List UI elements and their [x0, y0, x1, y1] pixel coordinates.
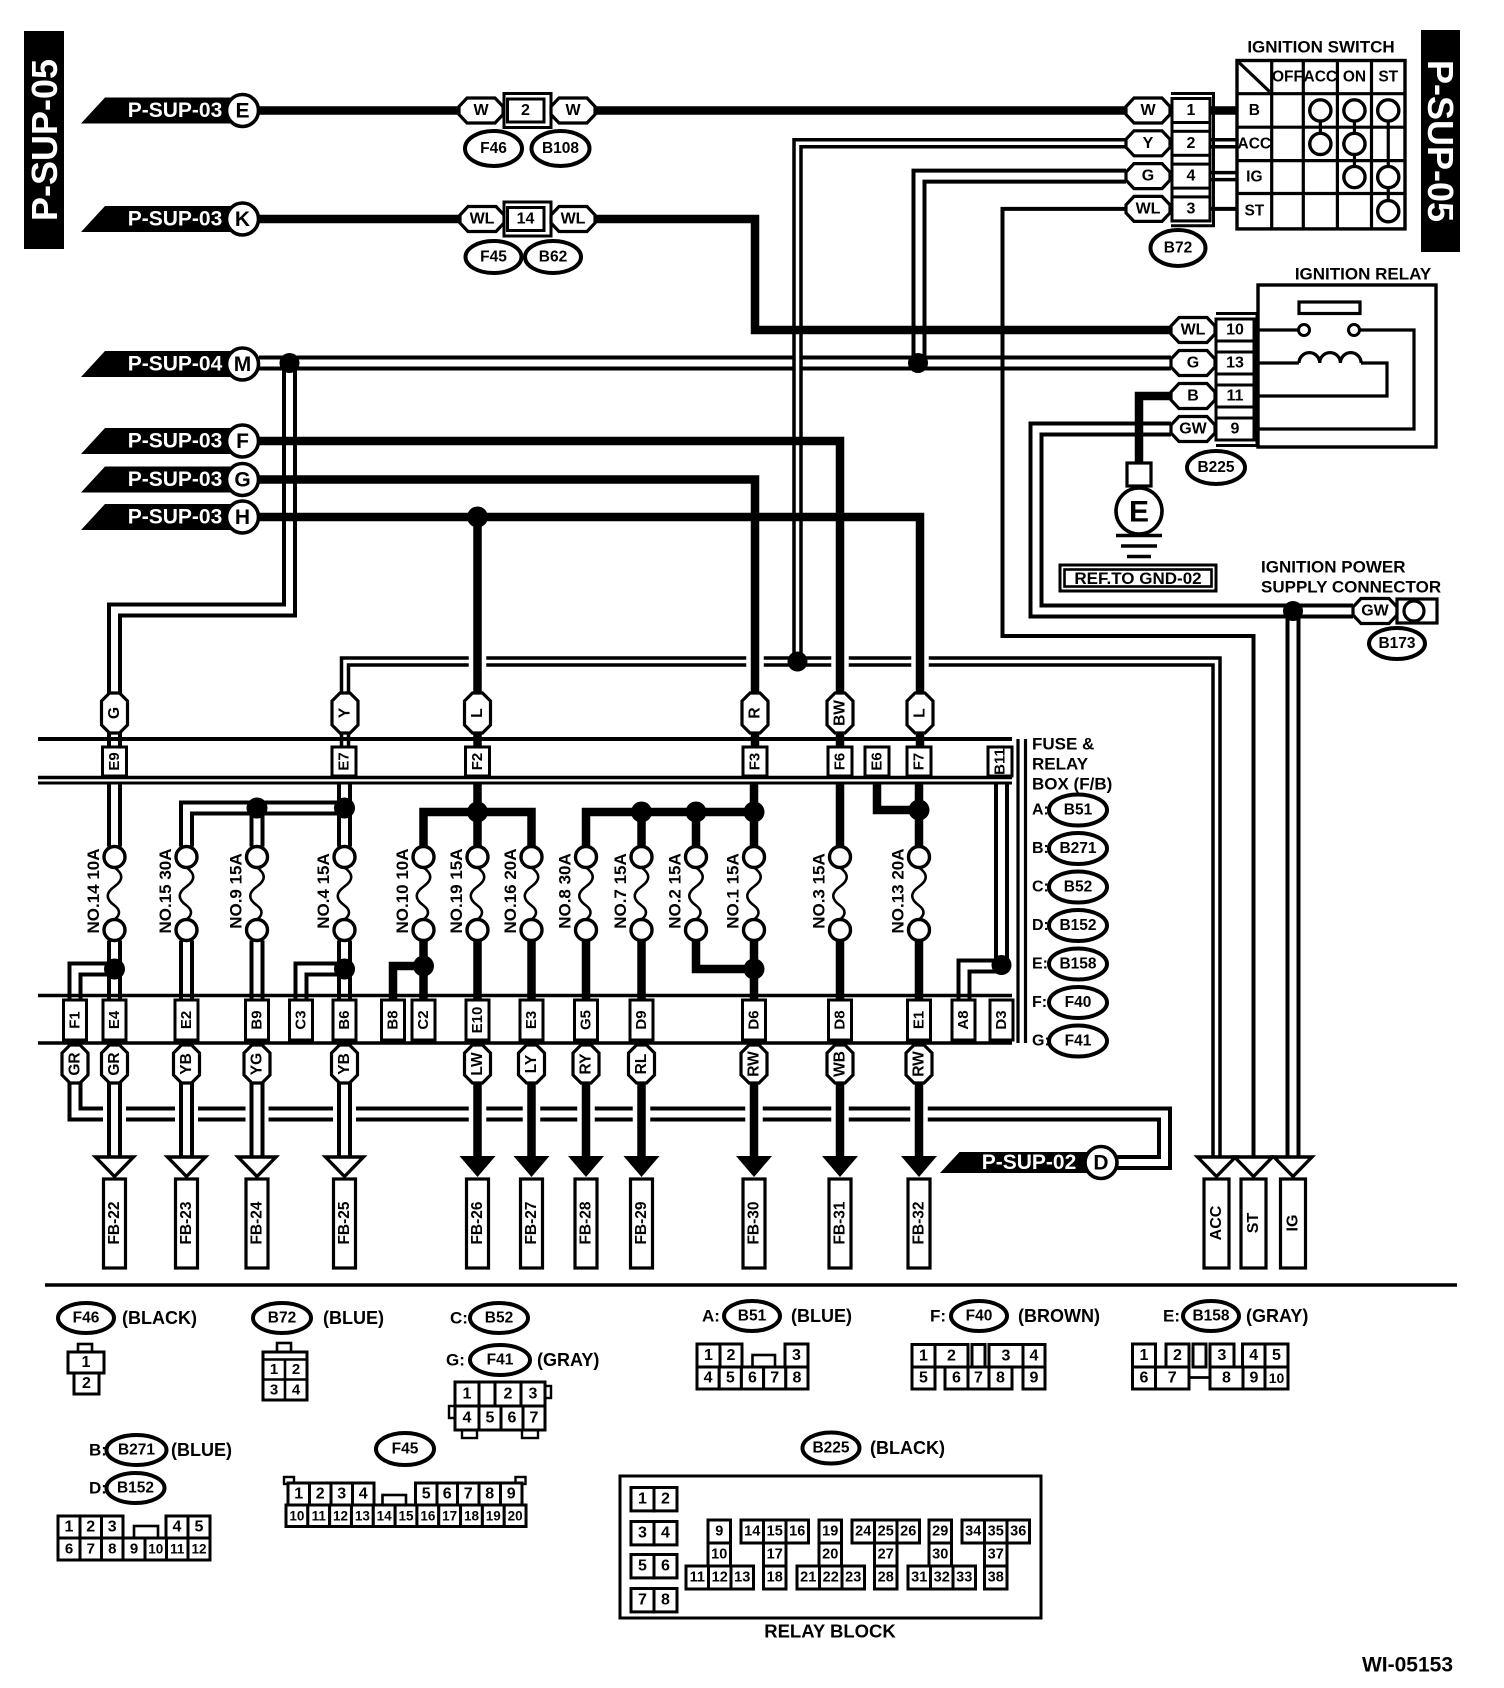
svg-text:WB: WB: [832, 1051, 849, 1077]
svg-text:10: 10: [148, 1542, 163, 1557]
svg-text:9: 9: [1030, 1370, 1039, 1387]
svg-text:B108: B108: [542, 140, 579, 157]
junction NO.7 branch: [631, 802, 652, 823]
svg-text:IG: IG: [1285, 1215, 1302, 1232]
svg-text:12: 12: [712, 1570, 728, 1586]
wire tag BW above fuse box: [827, 693, 853, 733]
svg-text:ST: ST: [1378, 69, 1398, 86]
svg-text:GW: GW: [1179, 421, 1207, 438]
svg-text:E2: E2: [178, 1011, 195, 1029]
svg-text:FB-31: FB-31: [832, 1201, 849, 1244]
svg-text:4: 4: [704, 1370, 713, 1387]
inline connector 14 F45-B62: [504, 202, 551, 236]
svg-text:6: 6: [1140, 1370, 1149, 1387]
inline connector 2 F46-B108: [504, 94, 551, 128]
svg-text:(BLACK): (BLACK): [870, 1438, 945, 1458]
connector B72 pinout: [263, 1343, 307, 1400]
svg-text:13: 13: [1226, 355, 1244, 372]
svg-text:3: 3: [638, 1525, 647, 1542]
fuse NO.8 30A: [556, 847, 597, 941]
svg-text:1: 1: [270, 1361, 278, 1378]
svg-text:G: G: [234, 469, 250, 492]
terminal F3: [743, 747, 767, 776]
svg-text:WL: WL: [561, 211, 586, 228]
wire tag L above fuse box: [465, 693, 491, 733]
svg-text:F:: F:: [1032, 994, 1047, 1011]
wire GW relay pin9: [1036, 429, 1353, 611]
svg-text:19: 19: [822, 1524, 838, 1540]
svg-text:36: 36: [1010, 1524, 1026, 1540]
svg-text:NO.9 15A: NO.9 15A: [227, 853, 246, 929]
connector B158 pinout: [1133, 1344, 1289, 1389]
junction E7 branch: [334, 798, 355, 819]
wire tag W left: [459, 98, 503, 123]
svg-text:F45: F45: [480, 249, 507, 266]
svg-text:D:: D:: [89, 1479, 107, 1498]
svg-text:8: 8: [108, 1541, 116, 1558]
flag P-SUP-02 D: [940, 1147, 1117, 1179]
wire YB B6 stem to FB-25: [337, 1043, 352, 1157]
svg-text:IGNITION POWER: IGNITION POWER: [1261, 558, 1406, 577]
terminal E9: [103, 747, 127, 776]
junction Y ACC wire: [788, 652, 808, 672]
svg-text:D:: D:: [1032, 917, 1049, 934]
svg-text:2: 2: [316, 1486, 325, 1503]
svg-text:NO.3 15A: NO.3 15A: [810, 853, 829, 929]
svg-text:IGNITION SWITCH: IGNITION SWITCH: [1247, 38, 1394, 57]
terminal A8: [952, 1000, 975, 1040]
connector F46 callout: [465, 131, 522, 166]
wire L from flag H to F7: [259, 517, 920, 747]
wire WL to ignition relay pin10: [595, 219, 1171, 330]
svg-text:3: 3: [792, 1347, 801, 1364]
svg-text:34: 34: [965, 1524, 981, 1540]
svg-text:C:: C:: [450, 1309, 468, 1328]
svg-text:20: 20: [508, 1508, 523, 1523]
svg-text:W: W: [1140, 102, 1156, 119]
svg-text:24: 24: [855, 1524, 871, 1540]
wire fuse NO.9 to B9: [250, 941, 265, 1001]
svg-text:D: D: [1093, 1152, 1108, 1175]
wire LY E3 stem to FB-27: [527, 1043, 536, 1157]
wire LW E10 stem to FB-26: [473, 1043, 482, 1157]
svg-text:4: 4: [1249, 1347, 1258, 1364]
pin 11 tag B ignition relay: [1171, 384, 1254, 409]
svg-text:2: 2: [661, 1491, 670, 1508]
svg-text:NO.16 20A: NO.16 20A: [501, 848, 520, 933]
wire branch fuse NO.10 NO.16: [424, 812, 532, 847]
wire tag GW power supply: [1353, 599, 1397, 624]
svg-text:13: 13: [734, 1570, 750, 1586]
fuse NO.1 15A: [724, 847, 765, 941]
wire F3 to fuse NO.1: [750, 783, 759, 847]
svg-text:4: 4: [173, 1519, 182, 1536]
svg-text:B158: B158: [1059, 956, 1096, 973]
svg-text:18: 18: [464, 1508, 480, 1523]
svg-text:33: 33: [956, 1570, 972, 1586]
svg-text:17: 17: [442, 1508, 457, 1523]
svg-text:RW: RW: [746, 1051, 763, 1077]
svg-text:5: 5: [195, 1519, 204, 1536]
wire M P-SUP-04 main G: [259, 356, 1171, 371]
svg-text:8: 8: [792, 1370, 801, 1387]
svg-text:P-SUP-03: P-SUP-03: [128, 208, 223, 231]
svg-text:3: 3: [529, 1386, 538, 1403]
svg-text:2: 2: [727, 1347, 736, 1364]
ignition switch contact circles: [1310, 100, 1399, 222]
svg-text:7: 7: [530, 1410, 539, 1427]
svg-text:5: 5: [486, 1410, 495, 1427]
wire ACC switch stub: [1210, 138, 1237, 149]
wire ST switch stub: [1210, 207, 1237, 211]
connector B108 callout: [532, 131, 590, 166]
svg-text:(GRAY): (GRAY): [1246, 1306, 1308, 1326]
svg-text:H: H: [235, 506, 250, 529]
svg-text:P-SUP-03: P-SUP-03: [128, 506, 223, 529]
svg-text:ACC: ACC: [1208, 1205, 1225, 1240]
fuse box top strip: [38, 739, 1012, 783]
svg-text:4: 4: [292, 1382, 301, 1399]
svg-text:(BROWN): (BROWN): [1018, 1306, 1100, 1326]
wire GR F1 to P-SUP-02 D: [75, 1083, 1165, 1163]
svg-text:25: 25: [878, 1524, 894, 1540]
wire tag WL left: [460, 207, 504, 232]
wire F6 to fuse NO.3: [836, 783, 845, 847]
svg-text:10: 10: [1226, 322, 1244, 339]
arrow to FB-26: [460, 1156, 496, 1268]
svg-text:E:: E:: [1163, 1307, 1180, 1326]
connector G F41 label: [446, 1345, 599, 1375]
junction NO.10 bottom: [413, 956, 434, 977]
junction G wire on M line: [908, 353, 928, 373]
terminal F6: [828, 747, 852, 776]
arrow to ST: [1235, 1157, 1273, 1268]
svg-text:14: 14: [517, 211, 535, 228]
wire tag LW below fuse box: [465, 1045, 491, 1083]
svg-text:BOX (F/B): BOX (F/B): [1032, 775, 1112, 794]
svg-text:F40: F40: [1065, 994, 1092, 1011]
svg-text:YB: YB: [336, 1053, 353, 1075]
junction GW IG wire: [1283, 601, 1303, 621]
svg-text:23: 23: [845, 1570, 861, 1586]
wire tag G above E9: [102, 693, 128, 733]
wire B11 branch to A8: [964, 966, 1002, 1000]
svg-text:B51: B51: [1064, 802, 1093, 819]
svg-text:YG: YG: [249, 1053, 266, 1075]
svg-text:P-SUP-05: P-SUP-05: [24, 59, 65, 221]
svg-text:3: 3: [1187, 200, 1196, 217]
terminal E3: [520, 1000, 543, 1040]
power supply connector symbol: [1397, 599, 1437, 623]
svg-text:21: 21: [800, 1570, 816, 1586]
wire fuse NO.2 drop: [692, 812, 701, 847]
terminal G5: [575, 1000, 598, 1040]
svg-text:B271: B271: [118, 1442, 155, 1459]
svg-text:B51: B51: [738, 1308, 767, 1325]
svg-text:2: 2: [1173, 1347, 1182, 1364]
svg-text:5: 5: [1272, 1347, 1281, 1364]
wire E7 to fuse NO.4: [337, 783, 352, 847]
svg-text:5: 5: [726, 1370, 735, 1387]
svg-text:LY: LY: [523, 1054, 540, 1073]
svg-text:37: 37: [988, 1547, 1004, 1563]
svg-text:D9: D9: [633, 1010, 650, 1029]
connector B225 callout: [1187, 451, 1245, 484]
svg-text:NO.13 20A: NO.13 20A: [889, 848, 908, 933]
svg-text:F40: F40: [966, 1308, 993, 1325]
wire fuse NO.7 to D9: [637, 941, 646, 1001]
svg-text:B72: B72: [268, 1310, 296, 1327]
relay coil: [1258, 353, 1387, 396]
svg-text:G: G: [1142, 168, 1154, 185]
wire branch to C3: [301, 969, 345, 1000]
junction NO.2 branch: [686, 802, 707, 823]
ground E circle: [1116, 488, 1162, 534]
svg-text:P-SUP-03: P-SUP-03: [128, 430, 223, 453]
svg-text:M: M: [234, 353, 252, 376]
terminal E1: [908, 1000, 931, 1040]
terminal F1: [64, 1000, 87, 1040]
wire fuse NO.7 drop: [637, 812, 646, 847]
svg-text:19: 19: [486, 1508, 501, 1523]
wire tag RW below fuse box: [906, 1045, 932, 1083]
svg-text:12: 12: [333, 1508, 348, 1523]
svg-text:E10: E10: [469, 1007, 486, 1034]
svg-text:14: 14: [377, 1508, 393, 1523]
svg-text:NO.4 15A: NO.4 15A: [314, 853, 333, 929]
svg-text:2: 2: [86, 1519, 95, 1536]
fuse NO.4 15A: [314, 847, 355, 941]
svg-text:5: 5: [422, 1486, 431, 1503]
svg-text:G:: G:: [446, 1351, 465, 1370]
svg-text:6: 6: [65, 1541, 73, 1558]
svg-text:B158: B158: [1192, 1308, 1229, 1325]
svg-text:NO.14 10A: NO.14 10A: [84, 848, 103, 933]
connector D B152 label: [89, 1473, 165, 1503]
svg-text:4: 4: [1030, 1347, 1039, 1364]
svg-text:1: 1: [1187, 102, 1196, 119]
svg-text:16: 16: [789, 1524, 805, 1540]
arrow to FB-23: [168, 1157, 206, 1268]
svg-text:6: 6: [443, 1486, 452, 1503]
svg-text:9: 9: [507, 1486, 516, 1503]
svg-text:2: 2: [521, 102, 530, 119]
svg-text:YB: YB: [178, 1053, 195, 1075]
drawing number: [1362, 1654, 1453, 1677]
fuse box connector B: B271: [1032, 833, 1107, 864]
fuse box connector F: F40: [1032, 987, 1107, 1018]
connector B62 callout: [525, 241, 581, 273]
svg-text:LW: LW: [469, 1052, 486, 1076]
wire E9 to fuse NO.14: [107, 783, 122, 847]
svg-text:G: G: [106, 707, 123, 719]
wire fuse NO.8 to G5: [582, 941, 591, 1001]
wire tag RL below fuse box: [629, 1045, 655, 1083]
svg-text:FB-24: FB-24: [249, 1201, 266, 1244]
ref to gnd label: [1060, 565, 1216, 591]
svg-text:11: 11: [170, 1542, 185, 1557]
svg-text:G5: G5: [578, 1010, 595, 1030]
svg-text:B52: B52: [1064, 879, 1092, 896]
svg-text:L: L: [912, 708, 929, 717]
flag P-SUP-03 E: [81, 95, 259, 127]
svg-text:B:: B:: [89, 1441, 107, 1460]
connector B152 pinout: [58, 1516, 210, 1560]
wire E6 branch to F7: [877, 783, 919, 810]
svg-text:7: 7: [770, 1370, 779, 1387]
svg-text:2: 2: [947, 1347, 956, 1364]
svg-text:BW: BW: [832, 700, 849, 726]
wire RY G5 stem to FB-28: [582, 1043, 591, 1157]
svg-text:E6: E6: [869, 752, 886, 770]
svg-text:REF.TO GND-02: REF.TO GND-02: [1074, 569, 1201, 588]
wire fuse NO.1 to D6: [750, 941, 759, 1001]
svg-text:4: 4: [1187, 168, 1196, 185]
junction E6 F7 join: [909, 800, 930, 821]
wire tag YB below fuse box: [174, 1045, 200, 1083]
svg-text:12: 12: [191, 1542, 206, 1557]
svg-text:4: 4: [463, 1410, 472, 1427]
terminal C3: [290, 1000, 313, 1040]
wire R from flag G to F3: [259, 480, 755, 748]
wire tag RY below fuse box: [573, 1045, 599, 1083]
wire fuse NO.16 to E3: [527, 941, 536, 1001]
relay contact wiring: [1258, 325, 1414, 430]
svg-text:E1: E1: [911, 1011, 928, 1029]
svg-text:6: 6: [508, 1410, 517, 1427]
svg-text:B225: B225: [812, 1440, 849, 1457]
svg-text:9: 9: [130, 1541, 138, 1558]
svg-text:11: 11: [312, 1508, 327, 1523]
svg-text:2: 2: [504, 1386, 513, 1403]
svg-text:B62: B62: [539, 249, 567, 266]
fuse NO.15 30A: [156, 847, 197, 941]
svg-text:WI-05153: WI-05153: [1362, 1654, 1453, 1677]
junction on M line at flag: [280, 353, 300, 373]
arrow to FB-29: [624, 1156, 660, 1268]
pin 2 tag Y ignition switch: [1126, 131, 1210, 156]
svg-text:NO.1 15A: NO.1 15A: [724, 853, 743, 929]
connector F46 pinout: [68, 1344, 104, 1394]
svg-text:B152: B152: [1059, 917, 1096, 934]
svg-text:F2: F2: [469, 753, 486, 771]
fuse NO.19 15A: [447, 847, 488, 941]
svg-text:18: 18: [767, 1570, 783, 1586]
svg-text:13: 13: [355, 1508, 371, 1523]
svg-text:7: 7: [638, 1592, 647, 1609]
svg-text:E9: E9: [106, 752, 123, 770]
fuse NO.13 20A: [889, 847, 930, 941]
svg-text:E4: E4: [106, 1010, 123, 1029]
svg-text:P-SUP-02: P-SUP-02: [982, 1151, 1077, 1174]
svg-text:ST: ST: [1244, 203, 1264, 220]
svg-text:F7: F7: [911, 753, 928, 771]
wire tag YB below fuse box: [332, 1045, 358, 1083]
svg-text:FB-32: FB-32: [911, 1201, 928, 1244]
svg-text:B:: B:: [1032, 840, 1049, 857]
svg-text:(BLUE): (BLUE): [791, 1306, 852, 1326]
wire fuse NO.13 to E1: [915, 941, 924, 1001]
svg-text:15: 15: [398, 1508, 414, 1523]
svg-text:FB-22: FB-22: [106, 1201, 123, 1244]
svg-text:NO.10 10A: NO.10 10A: [393, 848, 412, 933]
svg-text:WL: WL: [1181, 322, 1206, 339]
svg-text:9: 9: [1250, 1370, 1259, 1387]
wire tag YG below fuse box: [244, 1045, 270, 1083]
ignition relay box: [1258, 265, 1436, 448]
svg-text:NO.19 15A: NO.19 15A: [447, 848, 466, 933]
arrow to FB-30: [736, 1156, 772, 1268]
wire fuse NO.10 to C2: [419, 941, 428, 1001]
wire ACC Y from E7 to ACC arrow: [345, 662, 1217, 1158]
wire M branch G to fuse E9: [115, 363, 290, 747]
wire WB D8 stem to FB-31: [836, 1043, 845, 1157]
wire B ignition switch pin1 stub: [1210, 106, 1237, 115]
wire tag Y above fuse box: [332, 693, 358, 733]
svg-text:GR: GR: [67, 1052, 84, 1075]
fuse box connector G: F41: [1032, 1026, 1107, 1057]
wire RL D9 stem to FB-29: [637, 1043, 646, 1157]
svg-text:FB-23: FB-23: [178, 1201, 195, 1244]
svg-text:F: F: [236, 430, 249, 453]
svg-text:W: W: [473, 102, 489, 119]
svg-text:P-SUP-03: P-SUP-03: [128, 99, 223, 122]
wire Y ignition pin2: [798, 143, 1127, 661]
svg-text:FB-26: FB-26: [469, 1201, 486, 1244]
connector C B52 label: [450, 1303, 528, 1333]
connector B225 relay block pinout: [620, 1476, 1041, 1642]
svg-text:2: 2: [1187, 135, 1196, 152]
flag P-SUP-03 G: [81, 464, 259, 496]
svg-text:NO.2 15A: NO.2 15A: [666, 853, 685, 929]
svg-text:7: 7: [974, 1370, 983, 1387]
svg-text:RELAY BLOCK: RELAY BLOCK: [764, 1621, 896, 1642]
wire branch fuse NO.15 NO.9: [187, 808, 345, 847]
svg-text:(BLUE): (BLUE): [323, 1308, 384, 1328]
svg-text:14: 14: [744, 1524, 760, 1540]
fuse box connector D: B152: [1032, 910, 1107, 941]
flag P-SUP-03 F: [81, 425, 259, 457]
fuse box bottom strip: [38, 996, 1012, 1044]
connector F45 label: [376, 1433, 434, 1465]
svg-text:2: 2: [292, 1361, 300, 1378]
svg-text:F41: F41: [487, 1352, 514, 1369]
svg-text:NO.7 15A: NO.7 15A: [611, 853, 630, 929]
fuse NO.14 10A: [84, 847, 125, 941]
ignition switch table: [1237, 38, 1405, 229]
flag P-SUP-03 K: [81, 203, 259, 235]
connector F46 label: [58, 1303, 197, 1333]
wire B relay pin11 to ground: [1139, 396, 1171, 463]
svg-text:FB-25: FB-25: [336, 1201, 353, 1244]
ground symbol: [1116, 536, 1162, 557]
svg-text:B173: B173: [1378, 635, 1415, 652]
terminal B8: [382, 1000, 405, 1040]
fuse NO.16 20A: [501, 847, 542, 941]
wire B11 to D3: [994, 783, 1009, 965]
svg-text:GR: GR: [106, 1052, 123, 1075]
pin 9 tag GW ignition relay: [1171, 417, 1254, 442]
svg-text:10: 10: [711, 1547, 727, 1563]
wire tag RW below fuse box: [741, 1045, 767, 1083]
svg-text:9: 9: [1231, 421, 1240, 438]
svg-text:R: R: [747, 707, 764, 718]
wire tag GR below fuse box: [62, 1045, 88, 1083]
terminal D8: [829, 1000, 852, 1040]
svg-text:7: 7: [464, 1486, 473, 1503]
svg-text:K: K: [235, 208, 250, 231]
fuse NO.10 10A: [393, 847, 434, 941]
